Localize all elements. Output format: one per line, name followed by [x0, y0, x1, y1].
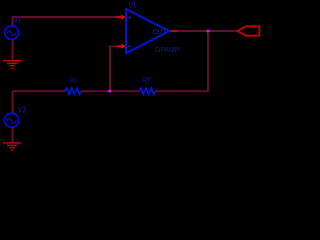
junction dot on output wire: [206, 30, 209, 33]
svg-text:V2: V2: [18, 106, 27, 115]
svg-text:Rs: Rs: [69, 78, 77, 85]
wire: V2 lower stem to ground: [12, 126, 14, 143]
ground symbol under V2: [3, 143, 21, 150]
svg-text:OUT: OUT: [153, 29, 167, 36]
voltage source V2 body: [5, 113, 19, 127]
wire: bottom bus Rf to output riser corner: [155, 90, 209, 92]
svg-text:V1: V1: [14, 16, 22, 25]
wire: V1 top riser: [12, 17, 14, 28]
op-amp minus input mark: [128, 45, 132, 47]
op-amp plus input mark: [128, 16, 131, 19]
resistor Rs zigzag: [65, 88, 81, 94]
resistor Rf zigzag: [140, 88, 156, 94]
wire: bottom bus Rs to Rf segment: [81, 90, 140, 92]
wire: V1 lower stem to ground: [12, 38, 14, 61]
wire: top horizontal V1 to op-amp + input: [12, 16, 117, 18]
pin arrow: op-amp non-inverting input: [117, 15, 126, 20]
output port symbol: [237, 26, 259, 35]
svg-text:OPAMP: OPAMP: [155, 47, 180, 54]
wire: feedback vertical from junction: [109, 46, 111, 91]
wire: V2 riser and bottom bus left segment to Rs: [12, 91, 66, 115]
op-amp U1 triangle: [126, 9, 169, 53]
wire: feedback horizontal into - input: [109, 45, 117, 47]
junction dot on bottom bus: [108, 90, 111, 93]
pin arrow: op-amp inverting input: [117, 44, 126, 49]
ground symbol under V1: [3, 61, 21, 68]
pin stub: op-amp output: [170, 30, 178, 32]
svg-text:U1: U1: [129, 1, 137, 10]
wire: output vertical riser: [207, 31, 209, 91]
svg-text:Rf: Rf: [142, 78, 150, 85]
voltage source V1 body: [5, 26, 19, 40]
wire: output horizontal to port: [177, 30, 237, 32]
